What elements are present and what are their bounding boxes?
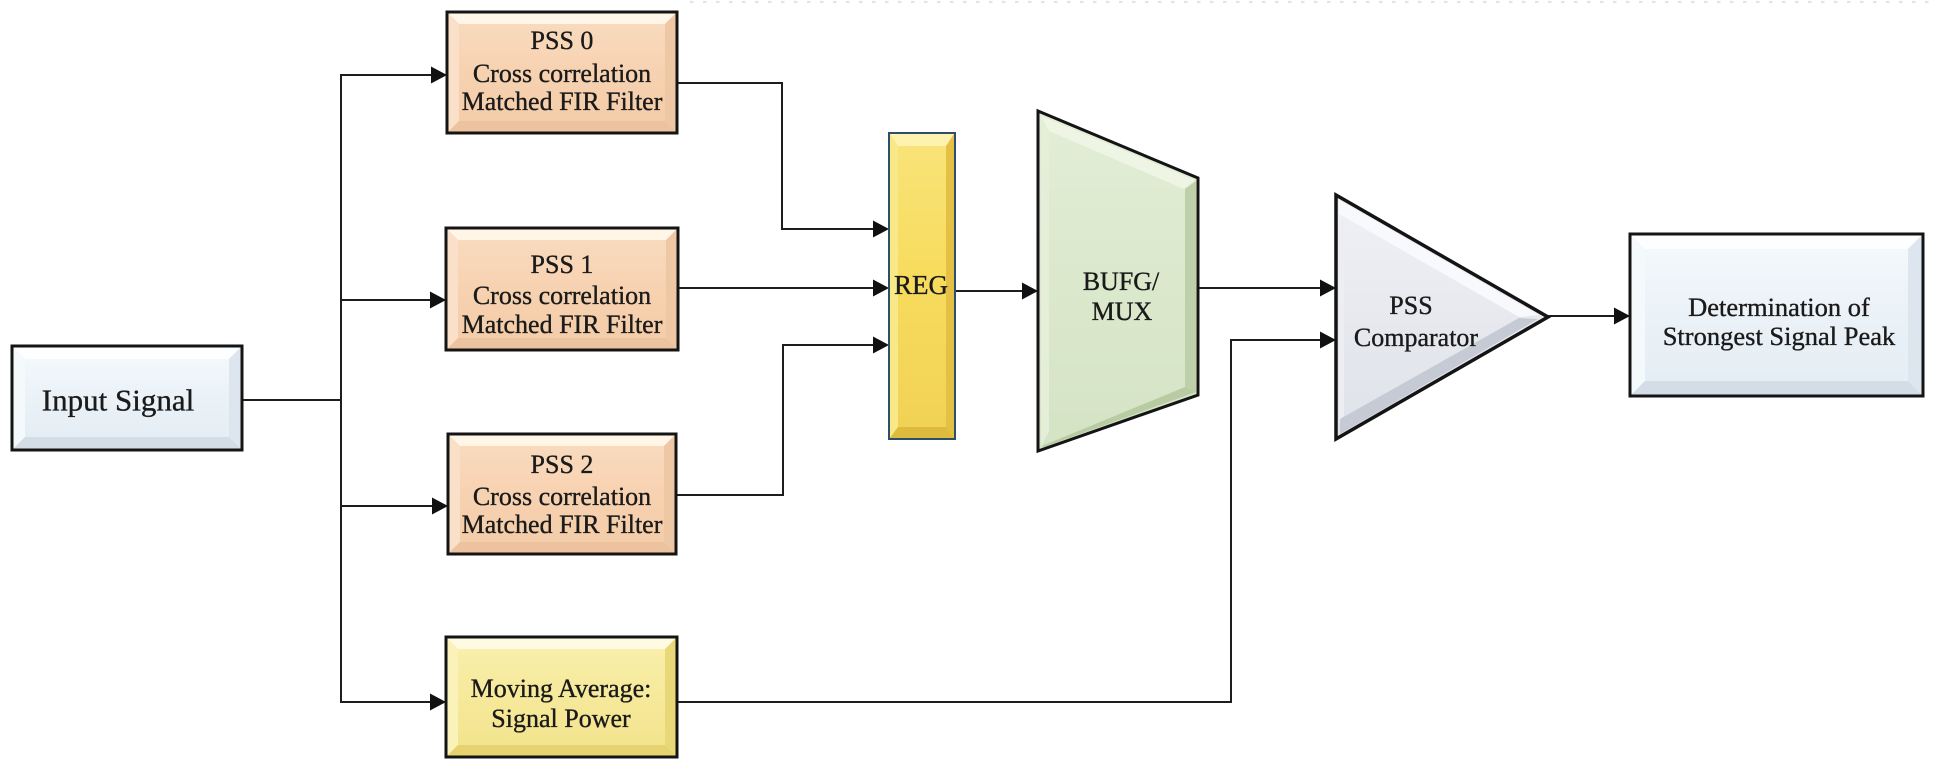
svg-text:Matched FIR Filter: Matched FIR Filter: [462, 510, 663, 539]
box PSS 2: [448, 434, 676, 554]
svg-text:PSS 1: PSS 1: [531, 250, 594, 279]
box Determination: [1630, 234, 1923, 396]
wire: trunk branch to PSS 2: [340, 505, 433, 507]
svg-text:Determination of: Determination of: [1688, 292, 1870, 322]
svg-text:Matched FIR Filter: Matched FIR Filter: [462, 310, 663, 339]
box REG: [889, 133, 955, 439]
box Input Signal: [12, 346, 242, 450]
svg-text:Moving Average:: Moving Average:: [471, 674, 652, 703]
svg-text:PSS 0: PSS 0: [531, 26, 594, 55]
wire: trunk branch to PSS 0: [340, 74, 432, 76]
wire: trunk branch to Moving Average: [340, 701, 431, 703]
svg-text:Strongest Signal Peak: Strongest Signal Peak: [1663, 321, 1896, 351]
triangle PSS Comparator: [1336, 195, 1548, 439]
box PSS 1: [446, 228, 678, 350]
svg-text:Signal Power: Signal Power: [491, 704, 631, 733]
svg-text:REG: REG: [894, 270, 948, 300]
wire: BUFG/MUX output to comparator: [1198, 287, 1321, 289]
svg-text:MUX: MUX: [1092, 297, 1153, 326]
dotted top border line: [690, 1, 1938, 3]
wire: PSS 2 output to REG: [676, 345, 874, 495]
wire: Moving Average output to comparator: [677, 340, 1321, 702]
wire: PSS 0 output to REG: [677, 83, 874, 229]
svg-text:Cross correlation: Cross correlation: [473, 59, 651, 88]
wire: REG output to BUFG/MUX: [955, 290, 1023, 292]
svg-text:Matched FIR Filter: Matched FIR Filter: [462, 87, 663, 116]
svg-text:PSS: PSS: [1389, 291, 1432, 320]
svg-text:BUFG/: BUFG/: [1083, 267, 1160, 296]
svg-text:Cross correlation: Cross correlation: [473, 482, 651, 511]
wire: trunk branch to PSS 1: [340, 299, 431, 301]
svg-text:Input Signal: Input Signal: [42, 383, 194, 418]
wire: comparator output to Determination box: [1548, 315, 1615, 317]
wire: PSS 1 output to REG: [678, 287, 874, 289]
box Moving Average: [446, 637, 677, 757]
wire: trunk vertical: [340, 75, 342, 702]
wire: Input Signal to trunk: [242, 399, 341, 401]
svg-text:PSS 2: PSS 2: [531, 450, 594, 479]
trapezoid BUFG/MUX: [1038, 111, 1198, 451]
svg-text:Comparator: Comparator: [1354, 323, 1479, 352]
box PSS 0: [447, 12, 677, 133]
svg-text:Cross correlation: Cross correlation: [473, 281, 651, 310]
